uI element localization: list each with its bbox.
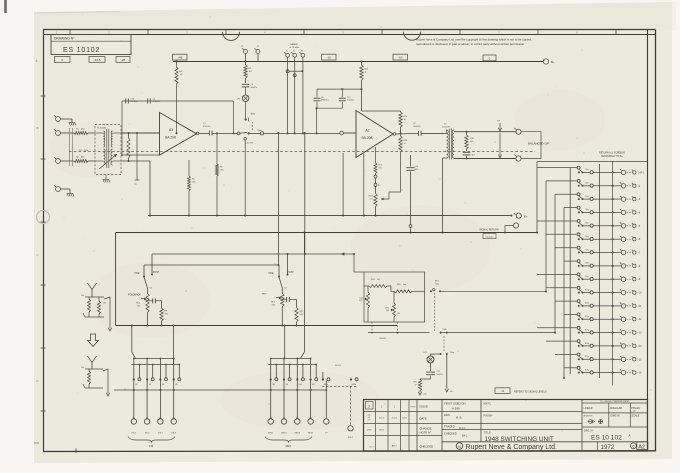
resistor R3 <box>127 138 130 158</box>
svg-text:4.: 4. <box>36 59 39 63</box>
drawing number box ES 10102 <box>51 35 131 55</box>
svg-text:S4a: S4a <box>585 209 588 211</box>
svg-text:A2: A2 <box>366 128 370 132</box>
switch FB3 <box>173 359 175 379</box>
node after C7 <box>216 132 218 134</box>
svg-text:B+: B+ <box>524 214 528 218</box>
svg-text:1k2: 1k2 <box>377 279 380 281</box>
transfer arrow symbol <box>88 334 99 347</box>
wire RV1 bottom <box>147 313 149 326</box>
svg-text:SIGNAL RETURN: SIGNAL RETURN <box>479 228 499 231</box>
svg-text:–15: –15 <box>638 358 643 361</box>
svg-text:R24: R24 <box>371 279 374 281</box>
svg-text:Rupert Neve & Company Ltd.: Rupert Neve & Company Ltd. <box>466 444 557 451</box>
wire bank column 3 <box>310 381 312 419</box>
svg-text:JAP 1: JAP 1 <box>638 171 645 174</box>
svg-text:REV.3: REV.3 <box>295 432 300 434</box>
connector pin C1 <box>256 50 260 54</box>
resistor R16 <box>400 133 402 136</box>
svg-text:ES 10102: ES 10102 <box>63 47 100 54</box>
svg-text:SCALE: SCALE <box>632 415 640 418</box>
svg-text:C14: C14 <box>437 371 440 373</box>
svg-text:1k: 1k <box>365 71 367 73</box>
resistor R5 <box>188 160 190 176</box>
resistor R25 <box>394 290 412 293</box>
cable screen wires <box>69 128 71 166</box>
resistor R14 <box>399 112 402 127</box>
wire RV2 bottom <box>281 307 283 326</box>
B+ rail terminal <box>543 59 548 64</box>
svg-text:F2: F2 <box>293 51 295 53</box>
jack network lower base <box>85 387 103 389</box>
svg-text:R19: R19 <box>413 382 416 384</box>
svg-text:S5: S5 <box>175 384 177 386</box>
A1 feedback tap wire <box>121 101 123 155</box>
A1 inverting input wire <box>122 154 160 156</box>
jack matrix row 15 <box>555 353 642 361</box>
transformer T1 dashed enclosure <box>95 125 121 175</box>
svg-text:F.B.1: F.B.1 <box>132 432 136 434</box>
svg-text:REV.: REV. <box>286 444 292 448</box>
svg-text:S9a: S9a <box>585 276 588 278</box>
wire C9 to T2 <box>421 132 444 134</box>
switch FB1 <box>146 359 148 379</box>
svg-text:REFERS TO SIGNAL LEVELS: REFERS TO SIGNAL LEVELS <box>514 390 547 393</box>
svg-text:S2a: S2a <box>585 183 588 185</box>
svg-text:HOLES: HOLES <box>632 407 641 410</box>
switch S13b contacts <box>440 353 442 355</box>
capacitor C9a <box>316 89 318 97</box>
svg-text:LO/2547: LO/2547 <box>442 126 451 128</box>
svg-text:1972: 1972 <box>601 444 615 451</box>
svg-text:(ANGLE IN): (ANGLE IN) <box>584 414 593 417</box>
capacitor C28 <box>125 99 127 104</box>
matrix bus wire 4 <box>563 208 565 378</box>
wire bank column 1 <box>283 381 285 419</box>
svg-text:M. B.: M. B. <box>456 416 462 420</box>
svg-text:–10: –10 <box>638 292 643 295</box>
svg-text:BA 208: BA 208 <box>362 136 373 140</box>
svg-text:+.010: +.010 <box>632 411 636 413</box>
jack matrix row 12 <box>564 313 642 322</box>
connector bank 2 <box>295 419 300 424</box>
input connector J1 shield pin <box>56 187 61 192</box>
balanced output connector bottom <box>516 156 521 161</box>
connector SOLO <box>350 386 352 425</box>
wire phones to matrix row13 <box>441 332 555 334</box>
svg-text:S10a: S10a <box>585 289 589 291</box>
svg-text:100μ: 100μ <box>450 352 454 354</box>
bank output bus wire <box>114 389 326 391</box>
jack matrix row 14 <box>546 340 642 348</box>
svg-text:56k: 56k <box>379 167 382 169</box>
svg-text:S8a: S8a <box>585 263 588 265</box>
svg-text:T.P.: T.P. <box>497 121 501 123</box>
svg-text:→: → <box>80 382 82 385</box>
svg-text:TRACED: TRACED <box>444 425 455 429</box>
svg-text:FIRST USED ON: FIRST USED ON <box>444 402 466 406</box>
frame top double border with section ticks <box>43 29 656 34</box>
matrix inner bus wire a <box>569 168 571 374</box>
svg-text:10k: 10k <box>386 310 389 312</box>
capacitor C13 <box>410 155 412 167</box>
copyright note <box>416 37 532 45</box>
reverb brace <box>265 437 312 443</box>
svg-text:4700/25+: 4700/25+ <box>153 101 162 103</box>
level reference boxes <box>55 57 131 63</box>
matrix bus wire 3 <box>554 194 556 332</box>
svg-text:S13a: S13a <box>442 329 446 331</box>
wire T2 primary return <box>443 157 447 159</box>
svg-text:S2: S2 <box>135 384 137 386</box>
note refers to signal levels <box>495 388 510 394</box>
A2 feedback wire <box>362 110 401 112</box>
capacitor C fb <box>148 300 153 302</box>
svg-text:S12b: S12b <box>352 384 356 386</box>
capacitor C1 <box>147 99 149 104</box>
foldback brace <box>128 437 175 443</box>
jack symbol upper Y <box>88 283 97 290</box>
svg-text:→: → <box>80 311 82 314</box>
svg-text:F.B.3: F.B.3 <box>158 432 162 434</box>
switch RV3 <box>310 359 312 379</box>
connector bank 2 <box>158 419 163 424</box>
T2 secondary wires <box>454 131 516 133</box>
year cell <box>597 442 599 451</box>
test point TP <box>136 133 138 180</box>
switch S-CH ON <box>233 132 235 134</box>
svg-text:R8: R8 <box>180 71 182 73</box>
matrix bus wire 2 <box>545 181 547 292</box>
connector bank 1 <box>144 419 149 424</box>
svg-text:TITLE: TITLE <box>484 430 491 434</box>
svg-text:100a: 100a <box>435 283 439 285</box>
svg-text:REV.2: REV.2 <box>281 432 286 434</box>
ground input pin1 <box>69 123 76 126</box>
svg-text:PRE: PRE <box>135 272 140 275</box>
svg-text:S11a: S11a <box>585 303 589 305</box>
svg-text:R.J.C: R.J.C <box>459 426 466 430</box>
svg-text:+48: +48 <box>177 56 182 60</box>
svg-text:BA 208: BA 208 <box>165 136 176 140</box>
svg-text:1948 SWITCHING UNIT: 1948 SWITCHING UNIT <box>485 436 554 443</box>
svg-text:4700/25+: 4700/25+ <box>203 126 212 128</box>
wire A2 bias drop <box>342 153 344 216</box>
svg-text:ANGULAR: ANGULAR <box>610 407 622 410</box>
jack matrix row 4 <box>564 206 641 214</box>
title block <box>363 400 648 452</box>
svg-text:CH. ON: CH. ON <box>245 143 253 145</box>
matrix inner bus wire b <box>598 164 600 378</box>
copyright symbol <box>630 443 636 449</box>
svg-text:2k2: 2k2 <box>103 303 106 305</box>
svg-text:1k: 1k <box>370 198 372 200</box>
wire bank column 1 <box>146 381 148 419</box>
jack matrix row 3 <box>555 193 641 202</box>
post feed wire <box>152 253 354 255</box>
T2 primary connections <box>444 132 447 134</box>
svg-text:S3a: S3a <box>585 196 588 198</box>
svg-text:-24.5: -24.5 <box>94 58 101 62</box>
svg-text:T1-10046: T1-10046 <box>97 127 107 129</box>
svg-text:SEPARATELY TO B+: SEPARATELY TO B+ <box>601 155 623 158</box>
svg-text:S12a: S12a <box>585 316 589 318</box>
switch FB2 <box>159 359 161 379</box>
svg-text:+F -10 dBm: +F -10 dBm <box>289 47 299 49</box>
svg-text:14570: 14570 <box>379 430 384 432</box>
jack network lower resistor <box>88 371 91 384</box>
svg-text:DATE: DATE <box>420 417 427 421</box>
jack matrix row 1 <box>537 166 645 174</box>
foldback bank feed wires <box>131 326 133 353</box>
gang dashed wire S14 <box>434 293 436 331</box>
svg-text:4700/25+: 4700/25+ <box>321 100 330 102</box>
svg-text:0.1/160v: 0.1/160v <box>347 100 354 102</box>
capacitor C7 <box>208 131 210 136</box>
svg-text:A1: A1 <box>169 128 173 132</box>
jack network upper resistor a <box>88 299 91 312</box>
potentiometer RV4 <box>393 303 396 317</box>
svg-text:REV: REV <box>262 294 267 296</box>
zero volt rail wire <box>148 215 512 217</box>
svg-text:S4: S4 <box>162 384 164 386</box>
svg-text:SOLO: SOLO <box>335 365 341 367</box>
resistor R9 <box>244 65 247 78</box>
capacitor C8 <box>245 78 247 83</box>
capacitor C14 <box>430 363 432 371</box>
svg-text:S13a: S13a <box>585 329 589 331</box>
T1 adjust arrow <box>99 154 117 169</box>
gang dashed wire S13 <box>443 336 445 352</box>
wire bank column 3 <box>173 381 175 419</box>
tolerance section <box>582 400 647 427</box>
resistor R1 <box>74 132 88 135</box>
arrowhead on post wire <box>341 252 344 255</box>
signal return terminal <box>505 226 513 233</box>
transformer T1 primary windings <box>104 131 105 147</box>
wire C7 to switch <box>212 132 237 134</box>
svg-text:10k: 10k <box>81 367 84 369</box>
jack upper link arrow <box>104 297 110 328</box>
svg-text:reproduced or disclosed, in pa: reproduced or disclosed, in part or whol… <box>416 42 525 46</box>
svg-text:S6a: S6a <box>585 236 588 238</box>
frame bottom border <box>43 450 656 453</box>
capacitor C rev <box>282 299 286 301</box>
frame left border <box>36 30 45 452</box>
svg-text:12476: 12476 <box>367 430 372 432</box>
resistor R12 <box>361 62 363 66</box>
svg-text:50k: 50k <box>272 304 275 306</box>
svg-text:S1a: S1a <box>585 169 588 171</box>
svg-text:CHECKED: CHECKED <box>444 432 457 436</box>
balanced output bracket wire <box>521 132 541 159</box>
svg-text:POST: POST <box>287 271 294 274</box>
A1 feedback drop to output <box>233 101 235 133</box>
svg-text:B: B <box>36 126 38 130</box>
box 10-105 <box>483 234 496 239</box>
svg-text:TOL. UNLESS OTHERWISE STATED: TOL. UNLESS OTHERWISE STATED <box>600 400 630 403</box>
svg-text:F.B.: F.B. <box>149 444 154 448</box>
switch FB0 <box>133 359 135 379</box>
wire post to phones box <box>353 254 355 272</box>
svg-text:–13: –13 <box>638 332 643 335</box>
wire phon row <box>368 332 430 334</box>
wire monitor send to matrix <box>441 290 546 292</box>
title block material cells <box>484 402 493 435</box>
wire coupling to signal <box>316 108 318 133</box>
jack matrix row 8 <box>564 260 641 268</box>
svg-text:5/25: 5/25 <box>359 300 363 302</box>
potentiometer RV2 <box>281 288 283 294</box>
svg-text:ISSUE: ISSUE <box>420 405 429 409</box>
svg-text:50k: 50k <box>137 305 140 307</box>
svg-text:3-8-72: 3-8-72 <box>402 418 407 420</box>
switch S12b solo <box>350 378 352 380</box>
svg-text:S7a: S7a <box>585 249 588 251</box>
switch RV1 <box>283 359 285 379</box>
solo gang dashed wire <box>322 385 358 387</box>
svg-text:B+: B+ <box>551 60 555 64</box>
svg-text:Rupert Neve & Company Ltd. own: Rupert Neve & Company Ltd. own the copyr… <box>416 37 532 41</box>
svg-text:3: 3 <box>368 405 370 409</box>
resistor R2 <box>74 160 88 163</box>
svg-text:LINEAR: LINEAR <box>584 407 593 410</box>
svg-text:F.B.4: F.B.4 <box>172 432 176 434</box>
punch hole artifact <box>37 211 50 224</box>
filing notch right <box>404 32 421 41</box>
wire R16 to RV3 wiper <box>381 152 401 199</box>
svg-text:R25: R25 <box>397 284 400 286</box>
svg-text:0.1/160v: 0.1/160v <box>131 101 138 103</box>
wire T1 secondary top <box>121 132 160 134</box>
transformer T1 secondary windings <box>111 131 112 147</box>
monitor network enclosure <box>364 272 425 322</box>
resistor R19 <box>419 378 421 381</box>
jack lower link arrow <box>103 369 108 393</box>
jack matrix row 6 <box>546 233 641 242</box>
filing notch left <box>223 32 240 41</box>
wire secondary return drop <box>149 161 151 216</box>
svg-text:F3: F3 <box>301 51 303 53</box>
wire C2 to rail <box>245 54 247 62</box>
jack matrix row 2 <box>546 179 641 188</box>
svg-text:POST: POST <box>153 271 160 274</box>
jack symbol lower Y <box>88 356 97 363</box>
svg-text:29-4-72: 29-4-72 <box>391 418 397 420</box>
svg-text:S5a: S5a <box>585 223 588 225</box>
resistor R24 <box>369 285 387 288</box>
bank bracket wires <box>134 358 174 360</box>
resistor R13 56k <box>375 153 377 163</box>
svg-text:DRG. Nº: DRG. Nº <box>584 429 593 433</box>
company row <box>456 443 463 450</box>
svg-text:-24v: -24v <box>423 394 427 396</box>
switch S12a solo <box>322 378 324 380</box>
svg-text:100/25v: 100/25v <box>437 374 443 376</box>
svg-text:PRE: PRE <box>269 272 274 275</box>
svg-text:DRAWING Nº: DRAWING Nº <box>54 37 75 41</box>
svg-text:RETURN ALL SCREENS: RETURN ALL SCREENS <box>599 151 625 154</box>
capacitor C9 <box>418 131 420 136</box>
frame right double border <box>647 30 649 452</box>
transformer T1 centre tap to ground <box>105 175 107 180</box>
svg-text:Phon: Phon <box>435 281 439 283</box>
post tap wire <box>304 133 306 254</box>
reverb bank feed wires <box>284 326 286 359</box>
wire A2 coupling top <box>317 88 362 90</box>
lamp LP1 <box>245 87 247 95</box>
svg-text:1: 1 <box>172 120 173 122</box>
ground T1 <box>103 180 110 183</box>
connector SJ <box>325 381 327 419</box>
resistor R8 <box>161 301 163 308</box>
svg-text:–12: –12 <box>638 318 643 321</box>
resistor R6 <box>216 133 218 164</box>
svg-text:£H L.: £H L. <box>462 435 468 438</box>
svg-text:100/25v: 100/25v <box>251 87 258 89</box>
foldback-rev common rail <box>116 325 397 327</box>
svg-text:SOLO: SOLO <box>348 437 354 439</box>
pre feed wire <box>144 264 279 266</box>
connector bank 3 <box>308 419 313 424</box>
gang dashed line <box>69 151 535 153</box>
potentiometer RV1 <box>147 288 149 294</box>
wire CH OFF mute drop <box>244 140 246 216</box>
connector bank 3 <box>171 419 176 424</box>
jack matrix row 11 <box>555 300 642 308</box>
capacitor C10 <box>341 89 343 97</box>
svg-text:–16: –16 <box>638 372 643 375</box>
svg-text:–14: –14 <box>638 345 643 348</box>
svg-text:FOLDBACK: FOLDBACK <box>128 293 141 296</box>
pre tap wire <box>277 133 279 265</box>
connector bank 0 <box>268 419 273 424</box>
capacitor C12 <box>466 149 468 151</box>
A2 output node <box>400 132 402 134</box>
jack matrix row 16 <box>564 366 642 375</box>
bank bracket wires <box>271 358 311 360</box>
paper mottling <box>50 90 605 430</box>
ground input shield <box>67 194 74 197</box>
wire T1 secondary bottom <box>121 160 150 162</box>
switch SWb lamp contact <box>245 102 247 119</box>
A2 output wire <box>393 133 396 136</box>
A1 output wire <box>196 132 199 135</box>
svg-text:4-11-72: 4-11-72 <box>379 418 384 420</box>
svg-text:CHECKED: CHECKED <box>420 445 434 449</box>
lamp LP2 <box>431 354 441 356</box>
op-amp A1 BA 208 <box>160 113 197 156</box>
svg-text:–11: –11 <box>638 305 642 308</box>
svg-text:A2: A2 <box>638 445 645 451</box>
-10 level box post <box>393 54 408 60</box>
svg-text:S15a: S15a <box>585 356 589 358</box>
+48 level box <box>173 54 188 60</box>
jack matrix row 13 <box>537 326 642 335</box>
phon dashed drops <box>371 322 373 332</box>
svg-text:-10: -10 <box>398 56 403 60</box>
switch RV0 <box>270 359 272 379</box>
input connector J1 pin2 <box>56 131 61 136</box>
svg-text:REV.1: REV.1 <box>268 432 273 434</box>
wire A2 ground leg <box>363 154 365 216</box>
fader link bar <box>286 70 289 73</box>
connector bank 1 <box>281 419 286 424</box>
input connector J1 pin1 <box>56 117 61 122</box>
svg-text:C10: C10 <box>347 97 350 99</box>
jack network upper base <box>85 316 104 318</box>
op-amp A2 BA 208 <box>356 111 393 158</box>
